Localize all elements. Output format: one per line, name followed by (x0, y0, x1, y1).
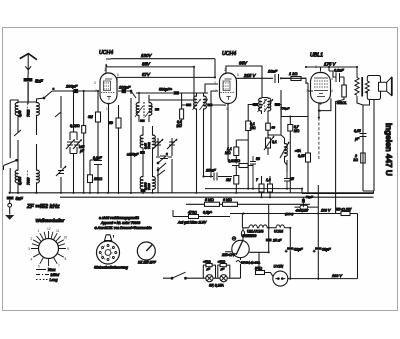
resistor 0.1M osc (180, 93, 184, 126)
svg-text:0,15: 0,15 (298, 154, 305, 158)
svg-text:470Ω: 470Ω (188, 211, 197, 215)
antenna coil winding left upper (15, 102, 18, 126)
tube3 internal electrodes (314, 78, 328, 97)
wire left column x131 (130, 103, 132, 194)
98V loop line (226, 66, 262, 93)
wire y116.5 detector (281, 117, 308, 154)
svg-text:7960: 7960 (147, 183, 151, 190)
svg-text:3M: 3M (88, 115, 93, 119)
grid resistor 0.15M tube3 (306, 153, 311, 193)
antenna (20, 54, 37, 75)
svg-text:50μF: 50μF (306, 195, 314, 199)
svg-text:7960: 7960 (27, 177, 31, 185)
capacitor 10nF (275, 74, 279, 83)
grid resistor 0.7M tube3 (288, 117, 293, 193)
anode wire tube3 (328, 67, 330, 71)
T2 top bar (262, 93, 269, 98)
svg-text:MΩ: MΩ (294, 129, 300, 133)
left vertical wire (9, 100, 11, 193)
svg-text:0,02MΩ: 0,02MΩ (228, 159, 240, 163)
svg-text:1 kΩ: 1 kΩ (289, 71, 297, 76)
grid leak wires tube3 (308, 83, 313, 117)
svg-text:0,15: 0,15 (354, 129, 361, 133)
svg-text:1: 1 (106, 107, 108, 111)
socket pin numbers (101, 244, 113, 261)
osc coil block lower right (153, 165, 156, 193)
dial spokes (31, 231, 66, 266)
vertical x83 drop (82, 91, 86, 193)
T2 core (264, 99, 266, 112)
cathode dots (318, 110, 320, 119)
knob circle (137, 242, 155, 260)
svg-text:UBL/UCH4: UBL/UCH4 (247, 230, 263, 234)
osc trimmer a (153, 138, 163, 150)
T2 cap A black (248, 103, 258, 121)
circled plus (232, 237, 236, 241)
svg-text:UrV14,4μ•10A: UrV14,4μ•10A (241, 261, 260, 265)
switch arm mid (37, 91, 53, 102)
svg-text:10: 10 (64, 236, 68, 240)
svg-text:1: 1 (38, 229, 40, 233)
vertical x268.7 connect (268, 204, 270, 228)
coil core dashes lower (26, 171, 28, 185)
180V line end corner (214, 59, 216, 78)
osc transformer trim arrows (193, 99, 208, 110)
right rail transformer returns (357, 100, 374, 192)
svg-text:215 V: 215 V (243, 73, 257, 78)
speaker driver box (379, 82, 387, 91)
svg-text:5nF: 5nF (16, 196, 24, 201)
T2 trim arrows (258, 99, 274, 112)
screen resistor lower wire (236, 140, 248, 189)
cap 0.15uF right rail (360, 134, 367, 137)
svg-text:85V: 85V (142, 62, 151, 67)
svg-text:87V: 87V (142, 72, 151, 77)
resistor 1.6M vertical (268, 176, 273, 197)
safety socket symbol dt (105, 235, 114, 241)
svg-text:770pF: 770pF (281, 107, 291, 111)
selector lamp oval (241, 228, 244, 241)
svg-text:≈5A: ≈5A (295, 149, 302, 153)
bus line AVC y188.6 (205, 188, 302, 190)
osc cap 100uF black (140, 151, 145, 154)
svg-text:12: 12 (47, 227, 51, 231)
svg-text:⊗ Anschl.W. von Drossel=Tonwas: ⊗ Anschl.W. von Drossel=Tonwaschte (94, 226, 152, 230)
svg-text:0,5μ+: 0,5μ+ (203, 211, 212, 215)
svg-text:0,1µF: 0,1µF (93, 156, 103, 160)
svg-text:Lang: Lang (50, 278, 58, 282)
potentiometer 0.1M (264, 130, 274, 155)
capacitor 50uF blob (302, 197, 305, 207)
resistor 5 4ohm horizontal (256, 271, 273, 277)
svg-text:3: 3 (94, 81, 96, 85)
svg-text:UCH4: UCH4 (274, 230, 283, 234)
resistor 50k on secondary (266, 123, 271, 138)
T2 cap B black (275, 103, 282, 117)
rectifier UY1N circle (273, 271, 288, 286)
resistor 470 box (189, 215, 199, 219)
bus line y197 (60, 196, 374, 198)
svg-text:100 V: 100 V (332, 274, 342, 278)
dial legend kurz (36, 268, 56, 272)
IF transformer T1 primary coil (136, 100, 139, 122)
svg-text:Ingelen 447 U: Ingelen 447 U (384, 123, 393, 176)
AF coupling vertical wires (268, 90, 287, 172)
svg-text:50: 50 (256, 157, 260, 161)
AF wire y176.5 with 25nF (204, 176, 233, 178)
87V line (117, 77, 215, 83)
padder cap 430pF (156, 156, 172, 159)
svg-text:7962: 7962 (27, 109, 31, 117)
svg-text:Kurz: Kurz (48, 268, 56, 272)
screen resistor 0.1M tube2 (246, 121, 251, 143)
wave switch contacts upper (4, 112, 62, 170)
grid resistor tube1 (96, 112, 101, 193)
svg-text:SF, 0,25A: SF, 0,25A (209, 284, 224, 288)
tube2 internal electrodes (221, 79, 235, 100)
wire antenna top bar to rail (10, 100, 18, 102)
output transformer primary zigzag (355, 67, 359, 100)
svg-text:7: 7 (58, 264, 60, 268)
capacitor 6.8nF top (329, 71, 344, 82)
resistor 0.02M horizontal (232, 164, 253, 168)
electrolytic cap 32uF no2 (315, 185, 322, 279)
junction y116.5 (289, 115, 291, 117)
heater wire with humps (242, 214, 290, 228)
selector bottom squiggle (236, 261, 244, 264)
tube2 pin numbers (214, 68, 239, 111)
cathode network tube3 (319, 99, 331, 118)
svg-text:32μF: 32μF (322, 248, 331, 252)
svg-text:Mittel: Mittel (51, 273, 60, 277)
svg-text:±100μF: ±100μF (127, 153, 139, 157)
osc lower cap black (141, 189, 146, 192)
socket pins (99, 245, 117, 261)
capacitor 5nF antenna (24, 75, 33, 104)
svg-text:a nicht verkürzungsgemäß: a nicht verkürzungsgemäß (99, 216, 139, 220)
svg-text:+50Ω: +50Ω (203, 260, 211, 264)
tube1 pin numbers (94, 68, 119, 111)
svg-text:0,1MΩ: 0,1MΩ (70, 124, 80, 128)
capacitor 25nF heater (266, 228, 272, 253)
svg-text:7: 7 (256, 178, 258, 182)
IF transformer T2 primary coil (259, 98, 262, 115)
svg-text:Apparat = Nr. unter 76000: Apparat = Nr. unter 76000 (100, 221, 140, 225)
svg-text:2: 2 (31, 237, 33, 241)
svg-text:30kΩL: 30kΩL (337, 101, 347, 105)
osc transformer winding B (204, 93, 207, 177)
osc switch arms (157, 156, 166, 176)
tube1 cathode wires (98, 91, 109, 193)
svg-text:1,6: 1,6 (266, 178, 271, 182)
svg-text:25 nF: 25 nF (205, 169, 216, 173)
cathode wire tube3 down (301, 189, 303, 194)
right vertical rail x373.5 (373, 191, 375, 194)
T1 bottom cap blob (140, 119, 145, 122)
coil core dashes upper (26, 104, 28, 118)
trimmer pair cap B (73, 140, 82, 150)
capacitor 500pF (173, 91, 179, 95)
osc trimmer b (167, 138, 177, 150)
svg-text:10nF: 10nF (268, 69, 278, 74)
bus line y204.3 (186, 203, 310, 205)
svg-text:6: 6 (117, 73, 119, 77)
osc cap right black (207, 103, 226, 106)
wire horizontal y160 link (90, 159, 98, 161)
ground cap 5nF bottom-left (5, 196, 14, 219)
wire to 200pF (52, 90, 98, 92)
corner y193.5 (302, 193, 374, 195)
fuse 1 (206, 275, 213, 282)
svg-text:32μF: 32μF (294, 248, 303, 252)
safety socket circle (97, 241, 120, 264)
resistor 2kOhm right rail (361, 153, 366, 163)
resistor 7k vertical (259, 176, 264, 197)
mech link dashed (318, 118, 320, 160)
175V line (306, 67, 357, 72)
capacitor 200pF (66, 89, 80, 93)
bus line chassis y192.8 (10, 192, 374, 194)
osc transformer winding A (194, 93, 197, 193)
svg-text:5⁄4Ω: 5⁄4Ω (255, 267, 262, 271)
dial legend lang (36, 278, 58, 282)
svg-text:200pF: 200pF (65, 84, 78, 89)
svg-text:μF: μF (220, 267, 225, 271)
antenna coil winding left lower (15, 140, 18, 193)
svg-text:4300,1W: 4300,1W (296, 209, 309, 213)
svg-text:6: 6 (237, 73, 239, 77)
dial numbers (28, 227, 69, 271)
trimmer pair cap A (66, 140, 75, 150)
svg-text:7: 7 (95, 89, 97, 93)
svg-text:6 MΩ: 6 MΩ (223, 198, 232, 202)
svg-text:+50Ω: +50Ω (218, 260, 226, 264)
svg-text:11: 11 (56, 229, 60, 233)
svg-text:UY1N: UY1N (274, 265, 284, 269)
215V line (236, 77, 306, 79)
svg-text:0,1: 0,1 (272, 140, 277, 144)
svg-text:3: 3 (28, 247, 30, 251)
tube2 left wires (205, 84, 218, 177)
resistor 6MOhm box (223, 202, 238, 206)
svg-text:0,50: 0,50 (18, 110, 22, 117)
wave switch dial circle (39, 239, 59, 259)
svg-text:ZF =452 kHz: ZF =452 kHz (26, 204, 60, 210)
tube1 internal electrodes (101, 79, 115, 100)
antenna coil winding right upper (37, 102, 40, 135)
switch after 100pF (130, 90, 136, 103)
capacitor 25nF AF (214, 173, 217, 181)
wire T1 top links (139, 93, 194, 100)
85V line (106, 64, 194, 100)
svg-text:4: 4 (331, 77, 333, 81)
svg-text:6,8nF: 6,8nF (334, 69, 344, 73)
IF transformer T2 secondary coil (268, 98, 271, 124)
svg-text:1500: 1500 (249, 234, 257, 238)
resistor 5MOhm box (205, 202, 220, 206)
svg-text:25 nF: 25 nF (272, 239, 282, 243)
svg-text:HZ 115 EFF: HZ 115 EFF (138, 261, 157, 265)
svg-text:MΩ: MΩ (177, 124, 183, 128)
svg-text:98V: 98V (239, 61, 248, 66)
wire tube1 top pin to 180V line (106, 59, 111, 73)
osc coil block upper right (153, 132, 156, 152)
svg-text:180V: 180V (141, 53, 152, 58)
resistor below 6.8nF (336, 77, 347, 214)
output transformer secondary zigzag (365, 81, 369, 93)
IF transformer T1 secondary coil (149, 100, 152, 122)
output transformer core bar (361, 77, 363, 97)
tube UCH4 no2 envelope (220, 73, 237, 104)
antenna coil block top bar (18, 82, 37, 102)
capacitor 50nF (250, 156, 256, 189)
power line y213.5 (230, 213, 358, 215)
svg-text:kΩ: kΩ (354, 158, 359, 162)
svg-text:Sicherheitsfassung: Sicherheitsfassung (94, 265, 129, 270)
svg-text:UCH4: UCH4 (222, 51, 236, 57)
T1 trim arrows (135, 106, 153, 117)
fuse 1 cap loop (203, 264, 215, 279)
resistor 1M vertical (234, 166, 239, 193)
fuse 2 (220, 275, 227, 282)
svg-text:Auf gut Hitze 2L5V: Auf gut Hitze 2L5V (177, 221, 207, 225)
180V line (111, 58, 215, 60)
svg-text:175 V: 175 V (324, 62, 337, 67)
wire y216.5 with 470ohm (173, 210, 230, 217)
T1 right cap blob (155, 108, 160, 111)
resistor 50 1kOhm below tube1 (116, 105, 121, 194)
wire y207.1 (295, 206, 319, 208)
wire fuse1 fuse2 (213, 277, 241, 279)
capacitor 0.1uF (94, 161, 102, 165)
svg-text:25: 25 (289, 177, 294, 181)
svg-text:UCH4: UCH4 (99, 50, 113, 56)
tube UBL1 envelope (311, 73, 331, 104)
svg-text:5 MΩ: 5 MΩ (205, 198, 214, 202)
svg-text:500pF≈: 500pF≈ (159, 88, 173, 92)
svg-text:7962: 7962 (147, 142, 151, 149)
svg-text:MΩ: MΩ (250, 126, 256, 130)
tone coil with arrow (280, 138, 289, 162)
svg-text:103 V: 103 V (321, 209, 331, 213)
resistor 4300 pill (300, 205, 308, 209)
osc coil block lower left (140, 165, 143, 193)
bottom rail 100V (288, 214, 358, 279)
dial legend mittel (36, 273, 59, 277)
svg-text:50: 50 (109, 121, 113, 125)
tube2 bottom wire (227, 104, 229, 161)
tube3 pin numbers (305, 65, 333, 113)
svg-text:5: 5 (38, 265, 40, 269)
selector bottom wires (241, 252, 269, 278)
svg-text:220≈Ω⁄V: 220≈Ω⁄V (221, 253, 236, 257)
svg-text:Wellenschalter: Wellenschalter (36, 218, 65, 223)
resistor 55ohm 2W (341, 212, 350, 216)
speaker cone (387, 77, 392, 96)
wire 500pF row (136, 92, 208, 94)
tuning cap trimmer pair bracket (70, 91, 77, 193)
svg-text:μF: μF (206, 267, 211, 271)
svg-text:8: 8 (65, 257, 67, 261)
fuse 2 cap loop (218, 264, 230, 279)
tuning cap trimmer lower (56, 96, 66, 193)
mains switch (163, 272, 206, 279)
svg-text:4: 4 (331, 89, 333, 93)
capacitor 100pF (118, 89, 131, 93)
svg-text:0,500: 0,500 (18, 177, 22, 185)
antenna coil winding right lower (37, 144, 40, 193)
junction dots chassis bus (9, 66, 359, 280)
osc cap left black (182, 103, 192, 106)
voltage selector circle (225, 240, 249, 257)
svg-text:MΩ: MΩ (225, 151, 231, 155)
svg-text:5nF: 5nF (35, 79, 43, 84)
T1 core (143, 102, 145, 118)
resistor 10kOhm branch (88, 160, 93, 193)
svg-text:55≈Ω,2W: 55≈Ω,2W (336, 208, 352, 212)
svg-text:9: 9 (67, 247, 69, 251)
svg-text:100pF: 100pF (119, 85, 131, 90)
wires osc block (143, 126, 172, 193)
osc coil block upper left (140, 132, 143, 152)
svg-text:4: 4 (31, 258, 33, 262)
wire dots 200pF row (72, 90, 84, 92)
electrolytic cap 32uF no1 (287, 228, 294, 279)
tube UCH4 no1 envelope (100, 73, 117, 104)
resistor 1.1M vertical (234, 140, 239, 164)
svg-text:50: 50 (272, 126, 276, 130)
capacitor 25nF right (284, 172, 290, 189)
speaker loop drop (363, 100, 370, 106)
svg-text:1M: 1M (226, 178, 231, 182)
speaker secondary loop (367, 76, 380, 100)
svg-text:UBL1: UBL1 (310, 53, 323, 59)
resistor 1kOhm horizontal (281, 77, 308, 84)
